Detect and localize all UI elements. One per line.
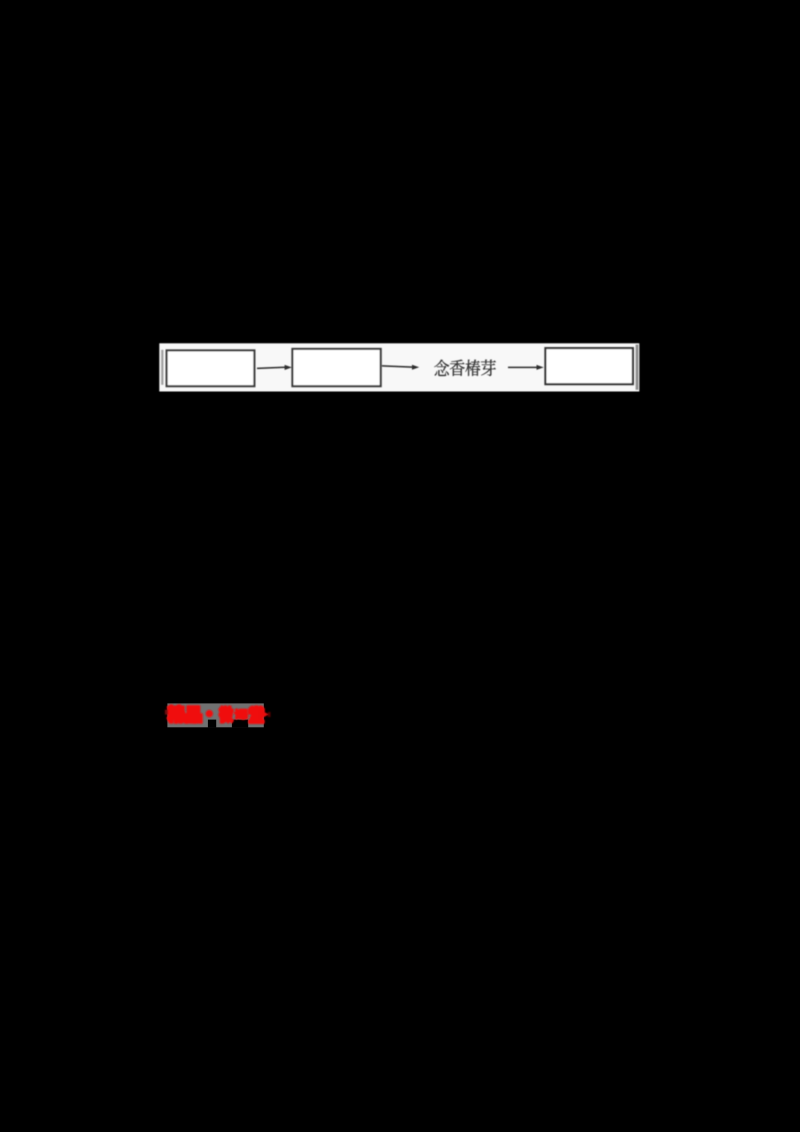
red watermark char 品 xyxy=(185,706,201,722)
red bleed right xyxy=(268,712,271,717)
arrow 2 head xyxy=(412,365,419,370)
red watermark char 课 xyxy=(235,709,248,719)
red watermark char 微 xyxy=(219,706,233,722)
red watermark char 精 xyxy=(168,706,184,723)
arrow 3 head xyxy=(537,365,544,370)
flow label char 芽 xyxy=(481,360,496,376)
white flowchart strip xyxy=(159,343,639,391)
arrow 3 shaft xyxy=(508,366,537,368)
flow label char 香 xyxy=(450,360,465,376)
arrow 1 head xyxy=(285,365,292,370)
flow box 1 xyxy=(167,350,255,386)
watermark highlight band xyxy=(167,703,263,727)
highlight notch 1 xyxy=(208,720,216,728)
flow box 3 xyxy=(545,348,633,384)
flow box 2 xyxy=(292,349,380,386)
scan line right edge xyxy=(636,345,639,390)
red watermark char 堂 xyxy=(249,707,264,723)
scan line left edge xyxy=(161,350,163,385)
red arrow head xyxy=(259,709,269,721)
highlight notch 2 xyxy=(232,720,248,728)
arrow 1 shaft xyxy=(257,367,285,368)
flow label char 念 xyxy=(434,360,449,376)
red separator dot xyxy=(206,710,213,717)
arrow 2 shaft xyxy=(382,366,413,367)
flow label char 椿 xyxy=(465,360,480,376)
red bleed left xyxy=(165,710,168,715)
